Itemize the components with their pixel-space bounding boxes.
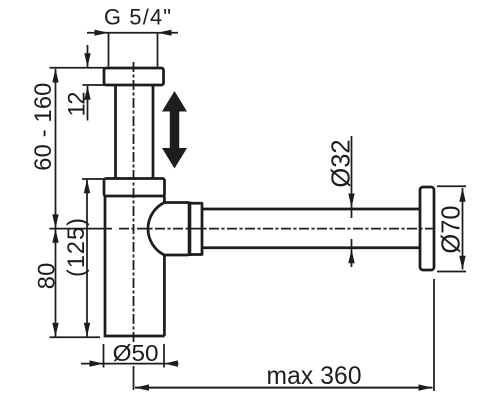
dimension 12: down arrow	[84, 53, 90, 67]
dimension 80: top arrow	[52, 229, 58, 243]
dimension 12: lower line	[87, 86, 89, 121]
dimension O32: down arrow	[348, 194, 354, 208]
dimension (125): top arrow	[84, 179, 90, 193]
dimension (125): line	[86, 180, 88, 337]
dimension max 360: left arrow	[135, 384, 149, 390]
dimension O32: up arrow	[348, 249, 354, 263]
vertical centerline solid lower part	[133, 366, 135, 390]
dimension G 5/4: extension line left	[108, 33, 110, 67]
extension line flange top left	[50, 67, 105, 69]
dimension 60-160: top arrow	[52, 69, 58, 83]
vertical centerline	[133, 62, 135, 362]
dimension O32: lower line	[351, 239, 353, 267]
horizontal outlet pipe top wall	[202, 208, 420, 211]
svg-text:G 5/4": G 5/4"	[104, 4, 171, 29]
dimension (125): bottom arrow	[84, 323, 90, 337]
dimension G 5/4: line	[87, 32, 178, 34]
dimension O70: bottom arrow	[459, 256, 465, 270]
svg-text:Ø50: Ø50	[113, 340, 159, 366]
elbow ball joint	[148, 203, 189, 256]
centerline extension tick left	[50, 228, 113, 230]
extension line cup bottom left	[50, 336, 101, 338]
dimension G 5/4: left arrow	[95, 30, 109, 36]
height adjustment double arrow	[162, 91, 187, 169]
dimension max 360: line	[135, 387, 433, 389]
svg-text:Ø70: Ø70	[438, 205, 466, 253]
dimension G 5/4: extension line right	[157, 33, 159, 67]
dimension G 5/4: right arrow	[158, 30, 172, 36]
trap body cup	[104, 196, 165, 336]
top flange (tailpiece nut)	[104, 68, 164, 85]
coupling nut on trap body	[104, 179, 165, 197]
svg-text:12: 12	[64, 92, 90, 117]
dimension 80: line	[55, 229, 57, 337]
dimension 12: upper line	[87, 45, 89, 67]
dimension O50: right arrow	[164, 360, 178, 366]
svg-text:60 - 160: 60 - 160	[31, 83, 57, 171]
outlet ring thick line	[188, 202, 192, 257]
svg-text:80: 80	[35, 263, 61, 290]
extension line flange bottom left	[83, 84, 105, 86]
label O50 background	[111, 342, 161, 362]
outlet block	[190, 203, 203, 254]
extension line nut top left	[82, 178, 104, 180]
dimension O70: extension line bottom	[437, 271, 466, 273]
dimension 80: bottom arrow	[52, 323, 58, 337]
dimension max 360: right arrow	[419, 384, 433, 390]
svg-text:Ø32: Ø32	[328, 139, 356, 187]
dimension O50: extension line left	[103, 344, 105, 368]
svg-text:(125): (125)	[64, 218, 90, 277]
dimension O70: extension line top	[437, 185, 466, 187]
dimension max 360: extension line right	[433, 279, 435, 391]
svg-text:max 360: max 360	[267, 363, 362, 390]
vertical inlet pipe wall right	[152, 85, 155, 179]
horizontal centerline	[119, 228, 433, 230]
dimension O50: left arrow	[90, 360, 104, 366]
dimension 12: up arrow	[84, 86, 90, 100]
wall rosette flange	[420, 187, 434, 270]
dimension 60-160: bottom arrow	[52, 214, 58, 228]
dimension O70: line	[462, 188, 464, 270]
dimension O50: extension line right	[163, 344, 165, 368]
vertical inlet pipe wall left	[114, 85, 117, 179]
horizontal outlet pipe bottom wall	[202, 246, 420, 249]
dimension O50: line	[81, 363, 179, 365]
dimension 60-160: line	[55, 69, 57, 229]
dimension O70: top arrow	[459, 188, 465, 202]
dimension O32: upper line	[351, 136, 353, 218]
